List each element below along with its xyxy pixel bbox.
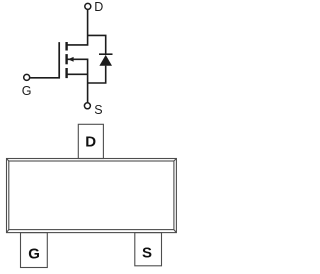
transistor body arrow [68,57,74,62]
svg-text:S: S [142,244,152,261]
package body inner rect [9,161,174,230]
transistor drain channel bar [65,42,67,51]
corner chamfer bottom-right [174,230,177,233]
transistor body channel bar [65,54,67,64]
diode body-diode triangle [99,55,112,66]
node D terminal circle [85,3,91,9]
wire drain: terminal down then left to drain contact [67,10,88,45]
pin D tab [78,124,103,158]
pin G tab [21,233,48,268]
svg-text:D: D [85,134,96,151]
svg-text:D: D [94,0,103,14]
corner chamfer bottom-left [7,230,9,233]
pin S tab [135,233,162,266]
wire diode bottom branch [88,66,106,83]
wire body contact to source node [67,59,88,102]
transistor gate line and wire to G terminal [30,42,59,78]
MOSFET Q1 schematic [24,3,113,108]
svg-text:G: G [22,84,32,98]
diode body-diode cathode bar [99,53,113,55]
corner chamfer top-left [7,159,9,162]
node G terminal circle [24,74,30,80]
svg-text:S: S [94,103,102,117]
transistor source channel bar [65,68,67,78]
package outline SOT-89 top view [7,124,177,267]
wire diode top branch [88,35,106,54]
node S terminal circle [84,103,90,109]
svg-text:G: G [28,246,40,263]
corner chamfer top-right [174,159,177,162]
package body outer rect [7,159,177,233]
wire source contact [67,73,88,75]
